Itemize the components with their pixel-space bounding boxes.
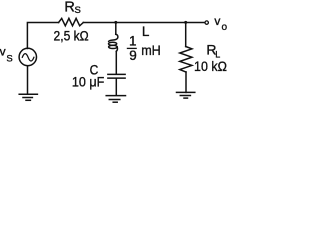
svg-text:2,5 kΩ: 2,5 kΩ xyxy=(54,28,89,43)
svg-text:v: v xyxy=(214,14,220,28)
svg-text:L: L xyxy=(142,24,150,39)
svg-text:10 kΩ: 10 kΩ xyxy=(194,58,227,74)
svg-text:S: S xyxy=(75,5,81,16)
svg-text:9: 9 xyxy=(129,48,137,63)
svg-text:10 μF: 10 μF xyxy=(72,75,104,90)
svg-text:o: o xyxy=(222,22,228,33)
svg-text:1: 1 xyxy=(129,34,137,49)
svg-text:v: v xyxy=(0,45,6,59)
svg-text:mH: mH xyxy=(141,42,161,58)
svg-text:S: S xyxy=(6,54,12,65)
svg-text:R: R xyxy=(64,0,74,15)
